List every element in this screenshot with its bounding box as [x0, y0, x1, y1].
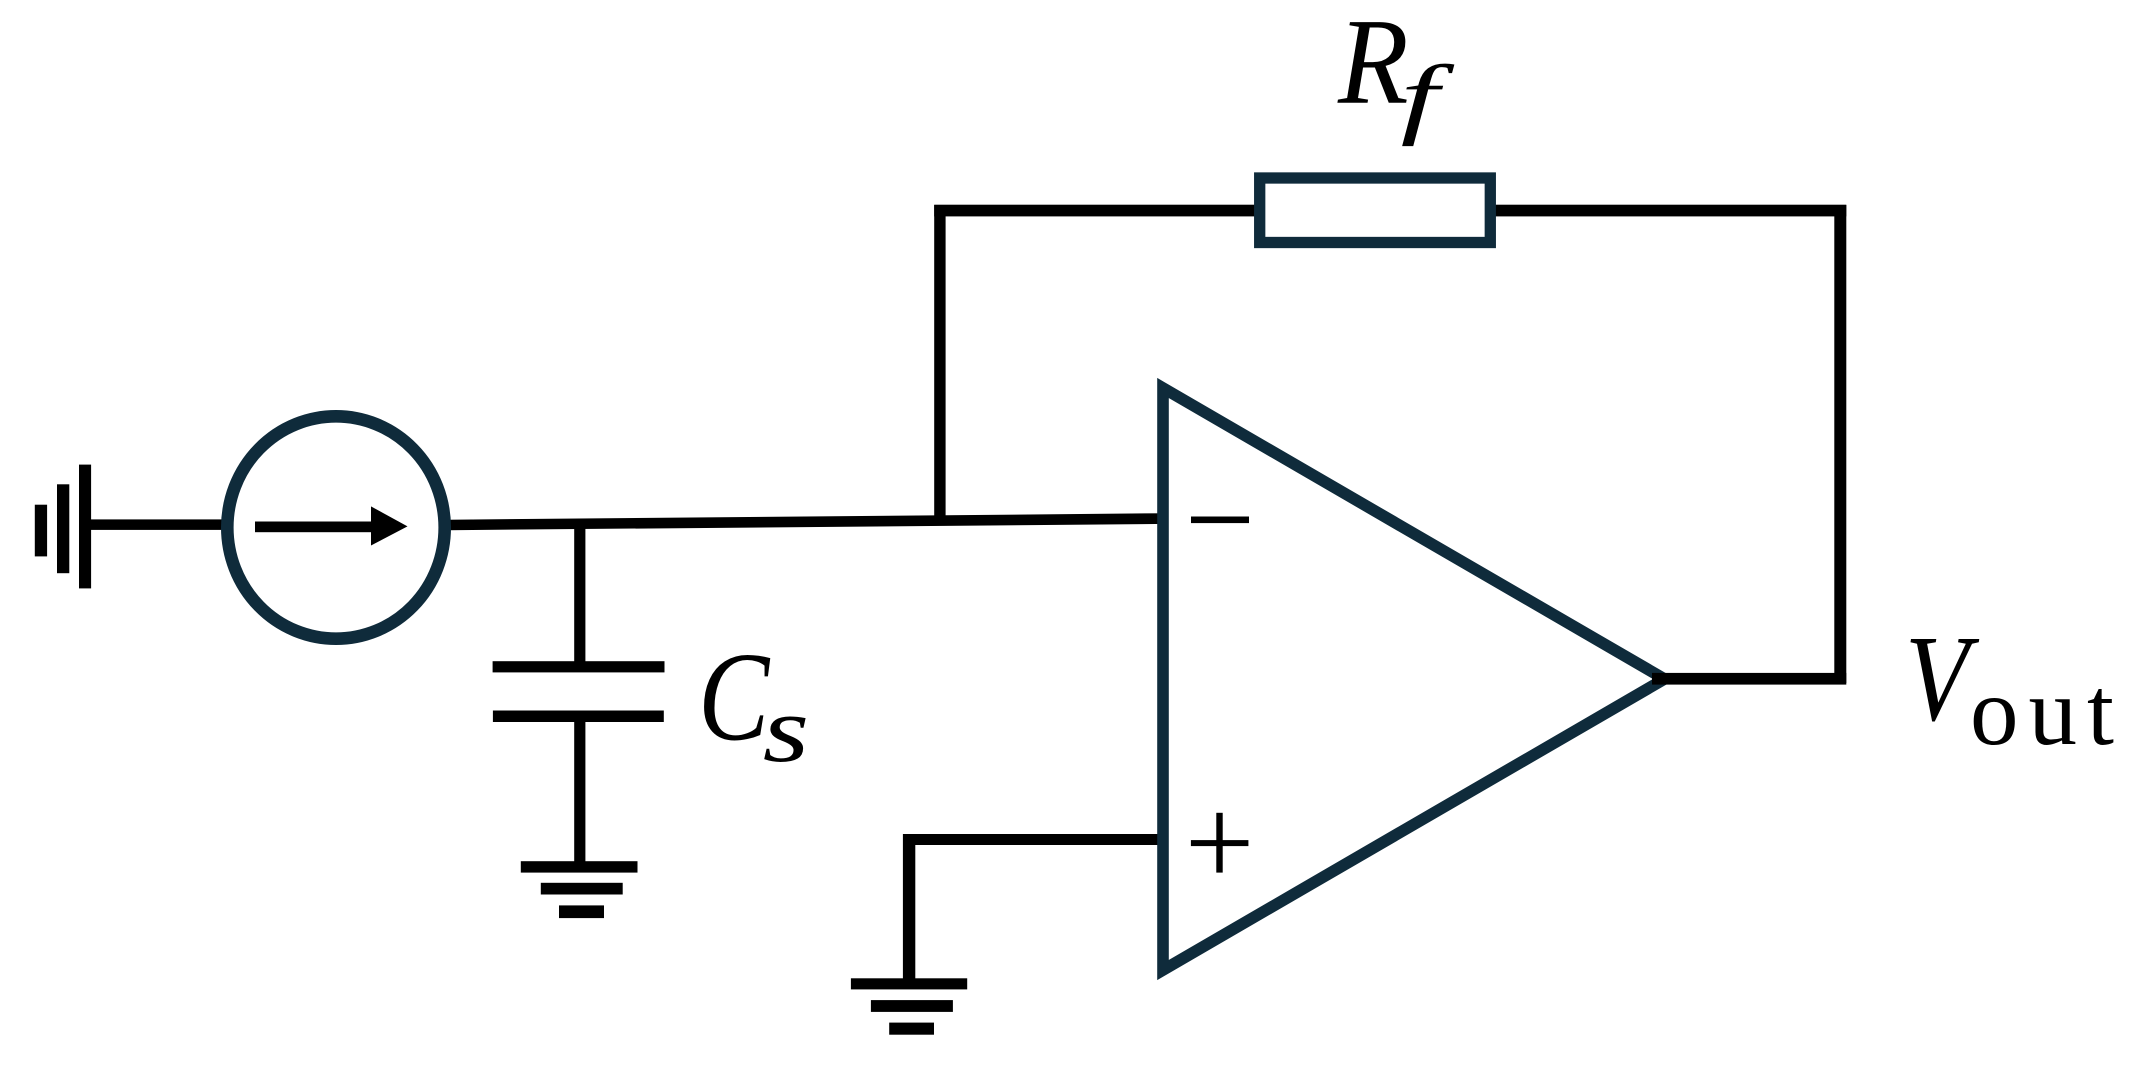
op-amp U1 non-inverting input marker (plus) [1191, 813, 1249, 873]
op-amp U1 inverting input marker (minus) [1191, 517, 1249, 524]
svg-text:f: f [1401, 48, 1455, 147]
wire: top feedback, resistor Rf to right vertical [1493, 205, 1846, 217]
wire: non-inverting input to op-amp [903, 834, 1163, 845]
svg-text:out: out [1970, 658, 2124, 765]
svg-text:V: V [1905, 610, 1979, 747]
wire: feedback vertical from node A up to Rf [934, 205, 945, 524]
wire: non-inverting input down to ground GND3 [903, 834, 915, 984]
label Cs [698, 627, 809, 782]
svg-text:C: C [698, 627, 771, 768]
capacitor Cs top plate [493, 661, 665, 672]
svg-text:R: R [1337, 0, 1409, 130]
wire: ground GND1 to current source I1 [85, 519, 228, 530]
resistor Rf (box) [1260, 178, 1491, 243]
wire: current source I1 to op-amp inverting input (node A) [448, 513, 1168, 530]
label Rf [1337, 0, 1455, 147]
current source I1 arrow [255, 506, 408, 545]
wire: op-amp output to node Vout [1652, 673, 1846, 685]
wire: node A junction down to capacitor Cs [574, 521, 585, 667]
capacitor Cs bottom plate [493, 711, 664, 723]
svg-text:s: s [763, 678, 809, 782]
ground GND2 (below capacitor) [521, 861, 638, 918]
ground GND3 (below non-inverting input) [851, 978, 967, 1034]
current source I1 (circle) [227, 416, 444, 638]
ground GND1 (input source ground, rotated left) [35, 465, 91, 589]
op-amp U1 (triangle) [1163, 388, 1665, 970]
wire: top feedback, left segment to resistor Rf [934, 205, 1259, 217]
wire: capacitor Cs to ground GND2 [574, 716, 585, 867]
wire: right vertical, Rf to output node [1834, 205, 1846, 683]
label Vout [1905, 610, 2124, 765]
